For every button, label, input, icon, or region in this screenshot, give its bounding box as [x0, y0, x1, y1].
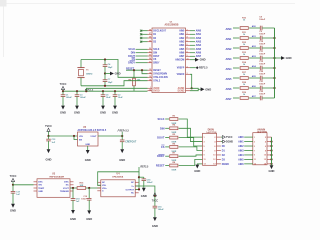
- svg-text:D0/CLKOUT: D0/CLKOUT: [153, 31, 167, 33]
- svg-text:R3: R3: [172, 115, 176, 117]
- wire XTAL1 top rail: [81, 60, 148, 78]
- wire VREFN to AGND: [190, 74, 192, 88]
- svg-text:10: 10: [213, 155, 216, 157]
- pin stub ANAIN pin 10 to ground rail: [267, 154, 272, 156]
- svg-text:25: 25: [149, 40, 151, 42]
- wire SCLK to R3: [165, 118, 169, 120]
- junction crystal caps midpoint: [104, 72, 106, 74]
- svg-text:9: 9: [254, 155, 256, 157]
- wire RESET: [126, 69, 148, 71]
- faint page border left: [3, 0, 5, 57]
- svg-text:20: 20: [149, 48, 151, 50]
- wire filter ground rail: [274, 28, 276, 98]
- wire R4 to DION pin 3: [179, 128, 203, 141]
- pin stub DION pin 10: [217, 154, 221, 156]
- svg-text:GND: GND: [85, 158, 91, 162]
- wire C9 to ground rail: [262, 37, 275, 39]
- svg-text:11: 11: [254, 159, 257, 161]
- svg-text:16: 16: [149, 89, 151, 91]
- svg-text:9: 9: [187, 55, 188, 57]
- svg-text:DRDY: DRDY: [157, 154, 165, 158]
- svg-text:AIN2: AIN2: [238, 145, 244, 148]
- junction output node: [138, 188, 140, 190]
- junction filter rail row 7: [273, 87, 275, 89]
- junction SYNC tie: [141, 69, 143, 71]
- power TVCC for U3: [11, 178, 14, 181]
- capacitor C16 100nF at U4 supply: [154, 196, 156, 206]
- resistor R15 10R: [77, 187, 86, 190]
- svg-text:CREFOUT: CREFOUT: [125, 142, 137, 144]
- capacitor C9 100nF: [259, 36, 261, 41]
- wire TVCC rail: [62, 90, 64, 92]
- wire OUTPUT up: [135, 172, 139, 190]
- junction crystal cap branch top: [104, 58, 106, 60]
- wire EN tie: [73, 135, 75, 137]
- svg-text:R7: R7: [172, 153, 176, 155]
- resistor R10 1k: [240, 27, 248, 30]
- wire TVCC down to VIN: [12, 182, 14, 185]
- svg-text:12: 12: [264, 159, 267, 161]
- junction TVCC cap: [12, 184, 14, 186]
- svg-text:TEMP: TEMP: [38, 188, 45, 190]
- junction filter rail row 6: [273, 77, 275, 79]
- wire AIN2 to ANAIN pin 5: [244, 145, 253, 147]
- pin stub DION pin 14: [217, 163, 221, 165]
- resistor R7 100R: [170, 155, 178, 158]
- wire AINCOM to ground: [190, 59, 195, 61]
- svg-text:AIN6: AIN6: [226, 87, 232, 91]
- svg-text:4: 4: [265, 140, 267, 143]
- wire AGND DGND join: [190, 88, 198, 90]
- wire R12 to C10: [249, 47, 260, 49]
- svg-text:AIN5: AIN5: [238, 158, 244, 161]
- svg-text:TRIM/NR: TRIM/NR: [60, 191, 69, 193]
- svg-text:GND: GND: [119, 158, 125, 162]
- svg-text:27: 27: [149, 33, 151, 35]
- svg-text:100nF: 100nF: [259, 74, 266, 76]
- svg-text:24: 24: [149, 57, 151, 60]
- svg-text:R6: R6: [172, 143, 176, 145]
- svg-text:DNC: DNC: [64, 182, 69, 184]
- svg-text:1k: 1k: [243, 34, 246, 36]
- svg-text:D2: D2: [153, 38, 157, 40]
- wire AIN1 to R11: [233, 37, 239, 39]
- svg-text:1: 1: [254, 137, 256, 139]
- op-amp U4 OPA350EA buffer: [101, 180, 135, 197]
- svg-text:7: 7: [187, 48, 188, 50]
- svg-text:100nF: 100nF: [259, 19, 266, 21]
- wire R19 to C22: [249, 97, 260, 99]
- resistor R18 1k: [240, 87, 248, 90]
- svg-text:AIN1: AIN1: [179, 33, 185, 36]
- wire R5 to DION pin 5: [179, 138, 203, 146]
- wire AIN2 to R12: [233, 47, 239, 49]
- svg-text:AIN4: AIN4: [226, 67, 232, 71]
- wire TVCC to U5 VIN: [48, 131, 50, 136]
- wire R2 to TVCC rail: [133, 86, 135, 91]
- svg-text:AIN3: AIN3: [179, 41, 185, 44]
- svg-text:AIN6: AIN6: [196, 52, 202, 55]
- ground filter rail: [281, 56, 285, 60]
- svg-text:REF+3.3: REF+3.3: [120, 130, 130, 132]
- wire R14 to C12: [249, 67, 260, 69]
- svg-text:100nF: 100nF: [81, 198, 88, 200]
- wire AIN6 to ANAIN pin 13: [244, 163, 253, 165]
- wire AVDD branch: [85, 90, 87, 92]
- wire AIN4 to R14: [233, 67, 239, 69]
- svg-text:VOUT: VOUT: [63, 188, 70, 190]
- svg-text:100nF: 100nF: [158, 209, 165, 211]
- svg-text:28: 28: [149, 29, 151, 31]
- svg-text:DGND: DGND: [226, 141, 233, 144]
- wire R13 to C11: [249, 57, 260, 59]
- svg-text:V-: V-: [102, 191, 104, 193]
- wire U5 GND: [87, 146, 89, 150]
- ground crystal caps: [110, 72, 114, 76]
- capacitor C2 10uF decoupling: [114, 90, 116, 92]
- svg-text:AIN6: AIN6: [179, 52, 185, 55]
- wire U5 VOUT: [98, 135, 122, 137]
- pin stub ANAIN pin 8 to ground rail: [267, 149, 272, 151]
- svg-text:U3: U3: [52, 173, 56, 175]
- svg-text:3: 3: [187, 73, 188, 75]
- svg-text:REF2.5: REF2.5: [199, 67, 208, 70]
- wire AIN5 to R17: [233, 77, 239, 79]
- wire AIN5 to ANAIN pin 11: [244, 158, 253, 160]
- svg-text:10uF: 10uF: [118, 97, 124, 99]
- svg-text:R5: R5: [172, 134, 176, 136]
- wire AIN0 to ANAIN pin 1: [244, 136, 253, 138]
- wire VIN U3: [13, 184, 34, 186]
- svg-text:21: 21: [149, 51, 151, 53]
- ground AGND DGND: [198, 88, 200, 90]
- svg-text:AIN4: AIN4: [238, 154, 244, 157]
- svg-text:10: 10: [187, 58, 189, 60]
- svg-text:12: 12: [213, 159, 216, 161]
- svg-text:R8: R8: [172, 162, 176, 164]
- svg-text:NC: NC: [131, 182, 135, 184]
- svg-text:3: 3: [254, 141, 256, 143]
- svg-text:C4: C4: [108, 63, 112, 66]
- wire DIN to U1: [136, 52, 148, 54]
- svg-text:VOUT: VOUT: [90, 136, 97, 138]
- wire SYNC/PDWN tie to RESET: [142, 70, 148, 74]
- ground DION pin13: [195, 165, 199, 169]
- svg-text:C7: C7: [108, 79, 112, 81]
- power TVCC at U4: [154, 195, 156, 197]
- svg-text:1: 1: [204, 137, 206, 139]
- power TVCC for rail: [61, 86, 64, 89]
- svg-text:DOUT: DOUT: [157, 136, 165, 140]
- faint page border top: [0, 3, 295, 5]
- svg-text:DRDY: DRDY: [128, 62, 135, 65]
- wire C22 to ground rail: [262, 97, 275, 99]
- svg-text:SCLK: SCLK: [157, 117, 164, 121]
- wire CS to U1: [136, 58, 148, 60]
- svg-text:OUTPUT: OUTPUT: [125, 189, 134, 191]
- svg-text:GND: GND: [60, 111, 66, 115]
- wire C20 to ground rail: [262, 77, 275, 79]
- capacitor C5 10uF decoupling: [102, 90, 104, 92]
- svg-text:23: 23: [149, 61, 151, 63]
- svg-text:14: 14: [149, 71, 151, 74]
- svg-text:26: 26: [149, 37, 151, 39]
- svg-text:GND: GND: [46, 158, 52, 162]
- svg-text:5: 5: [187, 40, 188, 42]
- junction filter rail row 4: [273, 57, 275, 59]
- capacitor C4 18pF: [104, 60, 106, 65]
- wire DION pin 13 to ground: [197, 163, 202, 166]
- svg-text:19: 19: [149, 76, 151, 78]
- svg-text:SCLK: SCLK: [153, 49, 160, 51]
- wire VOUT U3: [70, 187, 77, 189]
- svg-text:AIN0: AIN0: [196, 30, 202, 33]
- resistor R6 100R: [170, 146, 178, 149]
- svg-text:8: 8: [265, 150, 267, 152]
- svg-text:NC: NC: [131, 193, 135, 195]
- pin stub ANAIN pin 14 to ground rail: [267, 163, 272, 165]
- wire VREFP: [190, 67, 196, 69]
- ground C19: [87, 210, 91, 214]
- capacitor C17 1uF at U3 input: [12, 185, 14, 192]
- resistor R12 1k: [240, 47, 248, 50]
- ground CREFOUT: [120, 149, 124, 153]
- svg-text:TVCC: TVCC: [45, 125, 52, 128]
- wire C12 to ground rail: [262, 67, 275, 69]
- junction filter rail row 3: [273, 47, 275, 49]
- svg-text:15: 15: [149, 69, 151, 71]
- svg-text:AIN0: AIN0: [238, 136, 244, 139]
- ground ANAIN: [270, 165, 274, 169]
- svg-text:2: 2: [187, 29, 188, 31]
- svg-text:1uF: 1uF: [76, 201, 80, 203]
- svg-text:VIN: VIN: [38, 185, 42, 187]
- svg-text:DRDY: DRDY: [153, 63, 160, 65]
- wire AIN3 to R13: [233, 57, 239, 59]
- svg-text:AIN3: AIN3: [238, 149, 244, 152]
- wire AIN4 to ANAIN pin 9: [244, 154, 253, 156]
- svg-text:GND: GND: [10, 209, 16, 213]
- svg-text:D3: D3: [222, 158, 226, 161]
- svg-text:9: 9: [204, 155, 206, 157]
- svg-text:DIN: DIN: [160, 126, 165, 130]
- capacitor C11 100nF: [259, 56, 261, 61]
- svg-text:100R: 100R: [171, 169, 176, 171]
- svg-text:D1: D1: [153, 34, 157, 36]
- svg-text:GND: GND: [286, 56, 292, 60]
- wire R17 to C20: [249, 77, 260, 79]
- svg-text:4: 4: [187, 65, 188, 68]
- junction C19: [88, 187, 90, 189]
- wire ANAIN ground rail: [271, 137, 273, 165]
- ground for C1: [61, 106, 65, 110]
- svg-text:GND: GND: [269, 169, 275, 173]
- wire V+ to TVCC: [135, 186, 155, 196]
- svg-text:4: 4: [214, 140, 216, 143]
- wire R11 to C9: [249, 37, 260, 39]
- svg-text:8: 8: [214, 150, 216, 152]
- svg-text:Y1: Y1: [86, 69, 89, 71]
- svg-text:1k: 1k: [243, 44, 246, 46]
- capacitor C21 100nF: [259, 86, 261, 91]
- svg-text:AIN1: AIN1: [196, 33, 202, 36]
- wire R8 to DION pin 11: [179, 159, 203, 165]
- svg-text:14: 14: [264, 163, 267, 166]
- svg-text:7: 7: [254, 150, 256, 152]
- svg-text:18pF: 18pF: [108, 82, 114, 84]
- wire SCLK to U1: [136, 48, 148, 50]
- ground for C2: [113, 106, 117, 110]
- svg-text:6: 6: [214, 146, 216, 148]
- ground C13: [47, 149, 51, 153]
- ground AINCOM: [195, 58, 199, 62]
- svg-text:V+: V+: [131, 186, 134, 188]
- ground C16: [153, 217, 157, 221]
- capacitor C19 100nF at opamp input: [88, 188, 90, 198]
- svg-text:NC: NC: [66, 185, 70, 187]
- svg-text:GND: GND: [74, 111, 80, 115]
- regulator U5 ADP150AUJZ-2.5: [78, 132, 99, 146]
- svg-text:AIN1: AIN1: [226, 37, 232, 41]
- capacitor C13 1uF at U5 input: [48, 136, 50, 139]
- svg-text:100nF: 100nF: [80, 97, 87, 99]
- svg-text:AIN3: AIN3: [196, 41, 202, 44]
- svg-text:1k: 1k: [243, 54, 246, 56]
- svg-text:100nF: 100nF: [259, 34, 266, 36]
- svg-text:VREFP: VREFP: [177, 68, 185, 70]
- wire rail to GND arrow: [275, 57, 282, 59]
- wire C8 to ground rail: [262, 27, 275, 29]
- svg-text:OPA350EA: OPA350EA: [112, 175, 124, 178]
- svg-text:DOUT: DOUT: [153, 56, 160, 58]
- junction C13: [47, 135, 49, 137]
- svg-text:AIN0: AIN0: [179, 30, 185, 33]
- svg-text:C5: C5: [106, 94, 110, 96]
- svg-text:CS: CS: [153, 59, 157, 61]
- wire DION pin4 DGND: [221, 141, 223, 143]
- svg-text:AIN2: AIN2: [179, 37, 185, 40]
- svg-text:CS: CS: [161, 145, 165, 149]
- svg-text:7: 7: [204, 150, 206, 152]
- svg-text:AIN5: AIN5: [196, 48, 202, 51]
- svg-text:GND: GND: [85, 144, 90, 146]
- svg-text:VIN: VIN: [79, 136, 83, 138]
- svg-text:D0: D0: [222, 145, 226, 148]
- capacitor C8 100nF: [259, 26, 261, 31]
- resistor R17 1k: [240, 77, 248, 80]
- ground for C3: [75, 106, 79, 110]
- wire AIN7 to R19: [233, 97, 239, 99]
- wire XTAL2 bottom rail: [81, 81, 148, 86]
- capacitor C10 100nF: [259, 46, 261, 51]
- voltage reference U3 REF5025AIDR: [37, 179, 70, 198]
- svg-text:GND: GND: [194, 169, 200, 173]
- svg-text:AIN4: AIN4: [196, 44, 202, 47]
- svg-text:GND: GND: [152, 224, 158, 228]
- wire DION pin2 TVCC: [221, 136, 223, 138]
- svg-text:DGND: DGND: [178, 91, 185, 93]
- svg-text:AIN0: AIN0: [226, 27, 232, 31]
- svg-text:NC: NC: [102, 182, 106, 184]
- svg-text:XTAL2: XTAL2: [153, 80, 161, 83]
- wire C10 to ground rail: [262, 47, 275, 49]
- svg-text:ADS1256IDB: ADS1256IDB: [165, 23, 179, 26]
- junction filter rail row 2: [273, 37, 275, 39]
- svg-text:DIN: DIN: [153, 53, 157, 55]
- svg-text:EN: EN: [79, 139, 82, 141]
- svg-text:100nF: 100nF: [259, 54, 266, 56]
- wire DIN to R4: [165, 127, 169, 129]
- capacitor C12 100nF: [259, 66, 261, 71]
- pin stub ANAIN pin 4 to ground rail: [267, 141, 272, 143]
- svg-text:10uF: 10uF: [106, 97, 112, 99]
- junction VOUT node: [121, 135, 123, 137]
- wire AIN0 to R10: [233, 27, 239, 29]
- wire R10 to C8: [249, 27, 260, 29]
- svg-text:DNC: DNC: [38, 182, 43, 184]
- svg-text:1uF: 1uF: [16, 194, 20, 196]
- resistor R14 1k: [240, 67, 248, 70]
- wire R6 to DION pin 7: [179, 147, 203, 151]
- svg-text:GND: GND: [70, 217, 76, 221]
- svg-text:GND: GND: [205, 87, 211, 91]
- svg-text:4: 4: [187, 36, 188, 39]
- svg-text:VREFN: VREFN: [177, 74, 185, 76]
- svg-text:AIN6: AIN6: [238, 163, 244, 166]
- svg-text:3: 3: [187, 33, 188, 35]
- svg-text:18pF: 18pF: [108, 67, 114, 69]
- capacitor CREFOUT at U5 output: [121, 136, 123, 140]
- pin stub ANAIN pin 6 to ground rail: [267, 145, 272, 147]
- resistor R4 100R: [170, 127, 178, 130]
- power TVCC for U5: [47, 128, 50, 131]
- capacitor C22 100nF: [259, 96, 261, 101]
- pin stub ANAIN pin 2 to ground rail: [267, 136, 272, 138]
- wire feedback loop U4: [98, 167, 139, 185]
- capacitor C7 18pF: [104, 74, 106, 80]
- svg-text:TVCC: TVCC: [226, 136, 233, 139]
- svg-text:REF5025AIDR: REF5025AIDR: [50, 175, 65, 178]
- junction C18: [72, 187, 74, 189]
- ground C17: [11, 204, 15, 208]
- pin stub ANAIN pin 12 to ground rail: [267, 158, 272, 160]
- pin stub DION pin 8: [217, 149, 221, 151]
- svg-text:100nF: 100nF: [259, 44, 266, 46]
- svg-text:14/2*7PIN: 14/2*7PIN: [257, 131, 267, 134]
- svg-text:AIN1: AIN1: [238, 140, 244, 143]
- wire RESET to R8: [165, 165, 169, 167]
- wire CS to R6: [165, 146, 169, 148]
- svg-text:5: 5: [204, 146, 206, 148]
- svg-text:C1: C1: [66, 94, 70, 96]
- svg-text:1k: 1k: [243, 64, 246, 66]
- svg-text:DVDD: DVDD: [153, 91, 160, 93]
- svg-text:100nF: 100nF: [259, 94, 266, 96]
- svg-text:GND: GND: [112, 111, 118, 115]
- svg-text:D3: D3: [153, 42, 157, 44]
- connector ANAIN 2x7 header: [253, 133, 267, 165]
- junction RESET pullup: [133, 69, 135, 71]
- ground C18: [71, 210, 75, 214]
- svg-text:AIN5: AIN5: [226, 77, 232, 81]
- resistor R19 1k: [240, 97, 248, 100]
- svg-text:TVCC: TVCC: [60, 83, 67, 86]
- ground C15: [142, 188, 146, 192]
- svg-text:GND: GND: [200, 58, 206, 62]
- svg-text:ADP150AUJZ-2.5 SOT23-5: ADP150AUJZ-2.5 SOT23-5: [78, 129, 107, 132]
- pin stub DION pin 4: [217, 141, 221, 143]
- wire C21 to ground rail: [262, 87, 275, 89]
